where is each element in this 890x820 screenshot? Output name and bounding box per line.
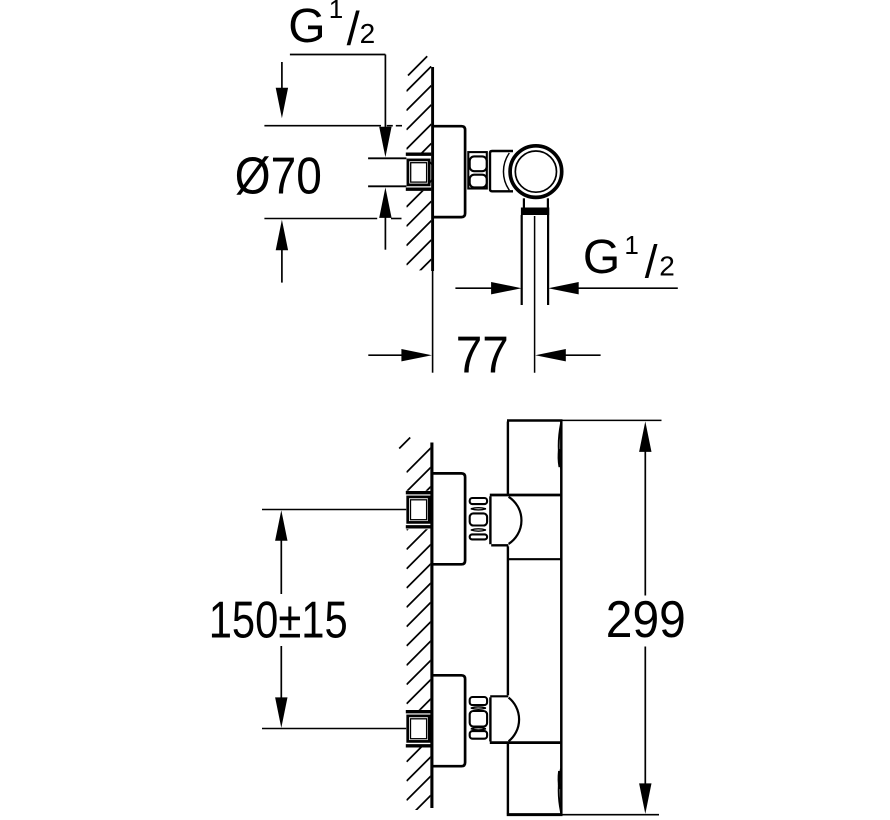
svg-text:1: 1 bbox=[329, 0, 343, 24]
hex union nut lower (bottom view) bbox=[470, 697, 487, 705]
dim O70 upper extension line bbox=[264, 125, 381, 127]
dim O70 lower extension line bbox=[264, 218, 377, 220]
escutcheon flange (top view) bbox=[432, 126, 465, 217]
pipe centre line + 77 extension bbox=[534, 216, 536, 373]
supply pipe in wall (top view) bbox=[368, 157, 406, 159]
dim G 1/2 outlet pipe arrows bbox=[455, 287, 491, 289]
svg-text:2: 2 bbox=[659, 251, 675, 282]
wall hole edge bars (top view) bbox=[406, 153, 432, 156]
cap detail arc bottom right bbox=[559, 769, 561, 813]
escutcheon flange lower (bottom view) bbox=[432, 675, 466, 766]
svg-text:Ø70: Ø70 bbox=[235, 147, 322, 205]
wall face extension line for 77 dim bbox=[432, 271, 434, 373]
O70 lower arrow bbox=[276, 220, 288, 251]
shower outlet pipe (top view) bbox=[521, 215, 523, 305]
svg-text:77: 77 bbox=[456, 327, 509, 385]
dim 150+-15 extension lines bbox=[262, 509, 406, 511]
S-union upper (bottom view) bbox=[489, 496, 491, 544]
square nut bevel to wall (upper) bbox=[429, 499, 432, 502]
S-union lower (bottom view) bbox=[490, 695, 508, 697]
O70 upper arrow bbox=[281, 62, 283, 89]
outlet neck below knob bbox=[523, 198, 525, 208]
stray hatch fragment above wall (bottom view) bbox=[399, 438, 410, 449]
dim 77 arrows bbox=[368, 354, 402, 356]
square union nut in wall (top view) bbox=[408, 160, 429, 185]
svg-text:/: / bbox=[347, 2, 361, 55]
svg-text:299: 299 bbox=[606, 591, 686, 649]
hex union nut upper (bottom view) bbox=[470, 498, 487, 504]
arrow to pipe bottom (G 1/2) bbox=[379, 187, 391, 218]
valve body collar arc behind knob bbox=[503, 153, 509, 190]
square nut bevel to wall (lower) bbox=[429, 718, 432, 721]
body bottom edge + 299 extension bbox=[507, 813, 563, 816]
square union nut in wall (upper) bbox=[408, 497, 430, 523]
dim 299 line and arrows bbox=[639, 421, 651, 452]
body boss line upper-bottom bbox=[509, 558, 563, 560]
svg-text:G: G bbox=[288, 0, 325, 53]
body boss line lower-bottom bbox=[490, 741, 563, 744]
thermostat knob outer circle (top view) bbox=[510, 146, 562, 198]
arrow to pipe top (G 1/2) bbox=[379, 127, 391, 158]
thermostat knob inner circle bbox=[515, 151, 556, 192]
escutcheon flange upper (bottom view) bbox=[432, 473, 466, 564]
stray hatch fragment above wall (top view) bbox=[408, 56, 427, 75]
body boss line upper-top bbox=[490, 494, 563, 497]
leader line for G 1/2 upper bbox=[290, 54, 386, 56]
svg-text:/: / bbox=[645, 235, 658, 287]
square nut bevel to wall (top view) bbox=[430, 162, 433, 165]
svg-text:G: G bbox=[583, 231, 620, 284]
wall face line (bottom view) bbox=[430, 443, 433, 809]
outlet union ring (black band) bbox=[521, 208, 549, 216]
thermostat body vertical bar bbox=[507, 422, 509, 496]
dim 150+-15 line and arrows bbox=[275, 510, 287, 541]
svg-text:1: 1 bbox=[624, 230, 638, 260]
wall hole edge bars lower connection bbox=[406, 710, 432, 713]
valve inlet connector (top view) bbox=[490, 151, 513, 191]
square union nut in wall (lower) bbox=[408, 716, 430, 742]
wall face line (top view) bbox=[431, 67, 434, 271]
svg-text:150±15: 150±15 bbox=[209, 591, 348, 649]
body top edge + 299 extension bbox=[507, 419, 563, 422]
wall (bottom view) hatched section bbox=[407, 448, 431, 820]
cap detail arc top right bbox=[559, 424, 561, 469]
hex union nut (top view) bbox=[468, 152, 487, 188]
wall hole edge bars upper connection bbox=[406, 491, 432, 494]
svg-text:2: 2 bbox=[360, 18, 376, 49]
